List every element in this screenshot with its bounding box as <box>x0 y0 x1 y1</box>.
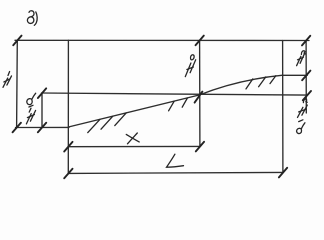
profile left edge <box>67 40 69 173</box>
slope hatch marks group 2 <box>169 101 175 111</box>
profile right edge <box>282 41 284 173</box>
dimension line H2 / b-H2 (right vertical) <box>305 40 307 113</box>
label x <box>126 134 139 142</box>
arrow tick b-H2 bottom <box>303 91 311 100</box>
arrow tick H0 top <box>196 36 204 46</box>
label b) top-left <box>27 11 34 24</box>
label H2 <box>297 56 301 65</box>
label L <box>167 154 184 167</box>
label b-H2 <box>297 128 302 133</box>
label H1-b <box>26 114 31 124</box>
top extension line <box>15 39 309 41</box>
arrow tick H1-b top <box>38 88 46 98</box>
label H0 <box>185 63 191 77</box>
arrow tick x right <box>196 142 204 152</box>
middle horizontal extension line <box>42 93 307 95</box>
right top extension line <box>283 74 308 76</box>
arrow tick H2 top <box>302 36 310 46</box>
dimension line x <box>68 145 200 147</box>
arrow tick L left <box>64 169 72 179</box>
arrow tick H1-b bottom <box>38 123 46 133</box>
arrow tick H1 top <box>13 36 21 46</box>
slope hatch marks group 3 <box>246 79 253 89</box>
bottom-left extension line <box>16 126 70 128</box>
arrow tick H1 bottom <box>13 123 21 133</box>
label H1 <box>3 78 8 87</box>
arrow tick x left <box>64 142 72 152</box>
dimension line H1-b (inner left vertical) <box>41 93 43 127</box>
dimension line H1 (left vertical) <box>16 40 19 127</box>
slope line <box>68 75 282 127</box>
dimension line L <box>68 172 283 173</box>
dimension line H0 and x extension (vertical at slope point) <box>199 40 201 146</box>
arrow tick slope intersection (H0 bottom, x right reference) <box>195 92 203 103</box>
arrow tick L right <box>279 168 287 178</box>
slope hatch marks group 1 <box>88 119 100 132</box>
arrow tick H2 bottom / b-H2 top <box>302 71 310 81</box>
